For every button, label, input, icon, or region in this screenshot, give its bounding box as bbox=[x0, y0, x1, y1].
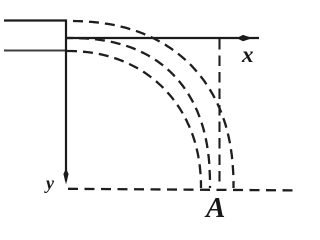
y-axis arrowhead bbox=[63, 169, 68, 185]
label y bbox=[46, 174, 54, 192]
y-axis bbox=[65, 20, 67, 182]
upper plate line bbox=[4, 19, 67, 21]
trajectory arc inner bbox=[67, 51, 201, 188]
trajectory arc outer bbox=[67, 21, 234, 188]
lower plate line bbox=[4, 50, 67, 52]
dashed ordinate line of point A bbox=[218, 39, 220, 187]
x-axis bbox=[66, 37, 259, 39]
label A bbox=[206, 194, 225, 223]
label x bbox=[242, 43, 254, 66]
trajectory arc middle bbox=[67, 38, 210, 188]
x-axis arrowhead bbox=[237, 35, 253, 41]
bottom dashed line bbox=[68, 189, 297, 191]
